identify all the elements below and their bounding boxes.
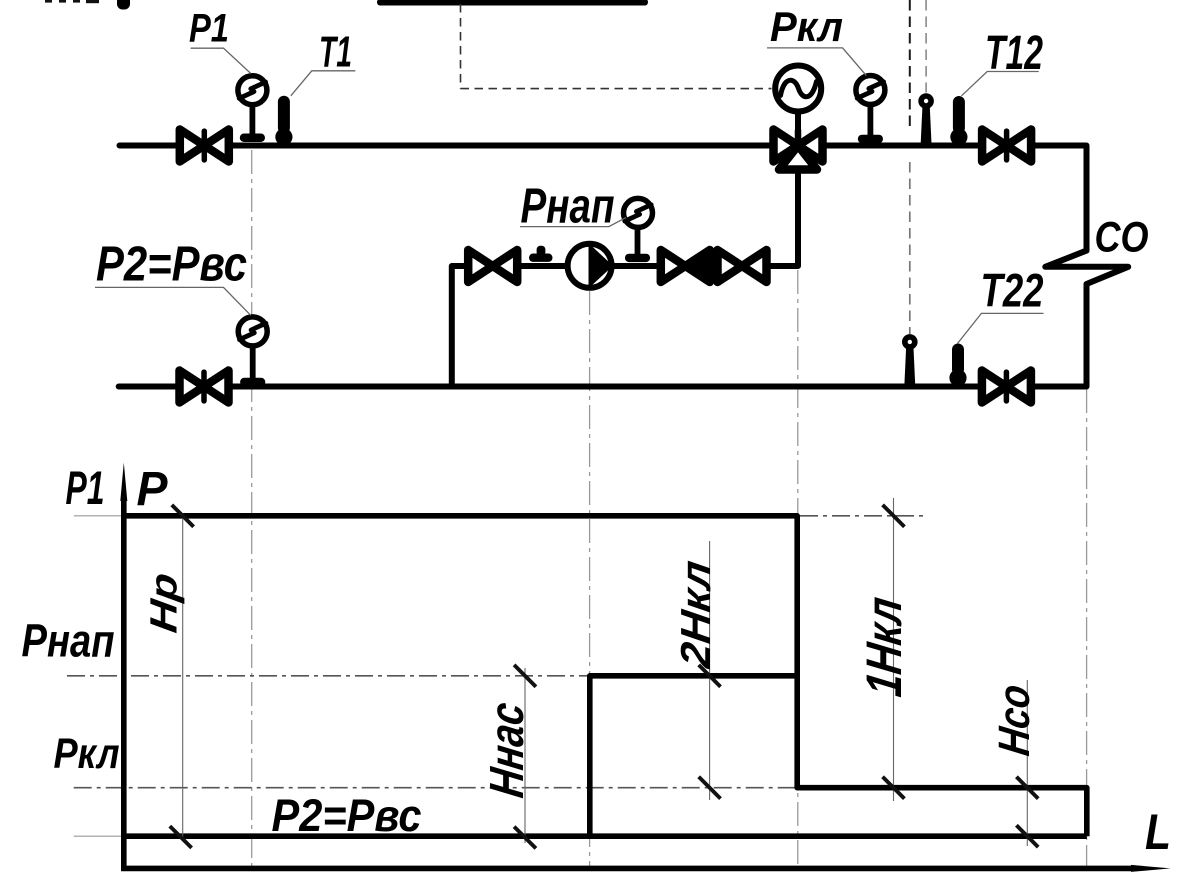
svg-text:P1: P1 — [66, 461, 105, 514]
valve pump suction — [468, 250, 517, 282]
dimension Nso line — [1026, 680, 1028, 846]
valve return right — [982, 371, 1031, 403]
dashed signal line x=910 lower to bottom sensor — [909, 162, 911, 334]
graph Pnap level dash-dot — [67, 675, 589, 677]
pressure profile pump step — [590, 676, 797, 836]
axis line through 3-way valve riser x=798 — [797, 270, 799, 866]
svg-text:T1: T1 — [319, 28, 352, 77]
leader T1 — [291, 71, 356, 96]
Y axis — [121, 497, 127, 868]
leader P1 — [191, 48, 251, 73]
cropped text marks top-left — [45, 0, 99, 3]
supply pipe T1 with right riser and break to CO — [119, 146, 1128, 387]
X axis — [121, 866, 1135, 872]
graph Pkl level dash-dot — [74, 787, 795, 789]
controller box bottom edge (cropped) — [377, 0, 648, 5]
electric actuator — [775, 66, 821, 112]
valve pump discharge — [718, 250, 767, 282]
check valve after pump — [661, 250, 710, 282]
thermometer T22 — [949, 344, 966, 387]
svg-text:P: P — [137, 463, 169, 516]
valve supply right — [982, 130, 1031, 162]
svg-text:P1: P1 — [189, 7, 229, 51]
pressure profile P1 line — [124, 516, 1087, 836]
three-way valve — [774, 130, 823, 170]
svg-text:2Нкл: 2Нкл — [672, 558, 719, 672]
dimension 2Nkl line — [709, 541, 711, 800]
leader Pkl — [767, 48, 866, 76]
graph P1 level extension left — [74, 515, 123, 517]
tick Nso bottom — [1016, 825, 1038, 847]
leader T12 — [962, 72, 1039, 96]
gauge P2 — [238, 317, 267, 386]
tick Nnas top — [514, 665, 536, 687]
svg-text:Ннас: Ннас — [480, 699, 534, 801]
X axis arrow — [1131, 865, 1171, 872]
svg-text:1Нкл: 1Нкл — [856, 594, 912, 700]
cropped sensor bulb top-left — [117, 0, 130, 10]
gauge P1 — [238, 76, 267, 142]
svg-text:L: L — [1145, 804, 1171, 860]
tick 2Nkl bottom — [699, 777, 721, 799]
svg-text:P2=Рвс: P2=Рвс — [96, 238, 247, 292]
svg-text:Ркл: Ркл — [54, 730, 120, 778]
pump — [568, 243, 612, 289]
axis line through pump x=590 — [589, 291, 591, 866]
tick 2Nkl top — [699, 665, 721, 687]
pump branch pipe — [452, 146, 798, 387]
drain symbol on branch — [529, 246, 553, 262]
tick 1Nkl bottom — [883, 777, 905, 799]
tick Hp bottom — [170, 826, 192, 848]
Y axis arrow — [120, 463, 127, 502]
dimension Nnas line — [524, 668, 526, 843]
temperature sensor top pipe — [921, 96, 932, 144]
dimension 1Nkl line — [893, 498, 895, 801]
svg-text:СО: СО — [1095, 214, 1149, 262]
svg-text:Рнап: Рнап — [521, 180, 615, 234]
axis line right riser x=1087 — [1086, 389, 1088, 866]
tick Nso top — [1016, 777, 1038, 799]
valve return left — [180, 371, 229, 403]
thermometer T12 — [950, 96, 967, 146]
gauge Pkl — [856, 76, 885, 144]
dimension Hp line — [182, 513, 184, 838]
tick Hp top — [172, 505, 194, 527]
graph P1 level dash-dot extension right — [800, 515, 927, 517]
dashed signal line x=926 to top sensor — [925, 0, 927, 93]
graph P2 level extension left — [74, 835, 123, 837]
actuator stem — [795, 111, 801, 146]
svg-text:Рнап: Рнап — [22, 615, 115, 667]
dashed control line from box, vertical — [460, 4, 462, 89]
thermometer T1 — [275, 96, 292, 146]
svg-text:P2=Рвс: P2=Рвс — [272, 790, 422, 841]
svg-text:T12: T12 — [985, 27, 1043, 80]
svg-text:Нр: Нр — [143, 570, 186, 635]
temperature sensor bottom pipe — [904, 337, 915, 385]
leader T22 — [958, 313, 1044, 343]
tick 1Nkl top — [883, 505, 905, 527]
pressure profile P2 line — [124, 833, 1087, 839]
dashed signal line x=910 upper — [909, 0, 911, 130]
leader P2 — [95, 287, 251, 315]
svg-text:Ркл: Ркл — [770, 3, 843, 50]
valve supply left — [180, 130, 229, 162]
svg-text:Нсо: Нсо — [990, 682, 1039, 759]
axis line through gauges x=252 — [251, 150, 253, 866]
three-way valve stem tip — [795, 131, 802, 144]
svg-text:T22: T22 — [981, 264, 1044, 317]
gauge Pnap — [624, 198, 653, 262]
tick Nnas bottom — [514, 827, 536, 849]
dashed control line to actuator, horizontal — [461, 88, 772, 90]
leader Pnap — [520, 218, 626, 227]
